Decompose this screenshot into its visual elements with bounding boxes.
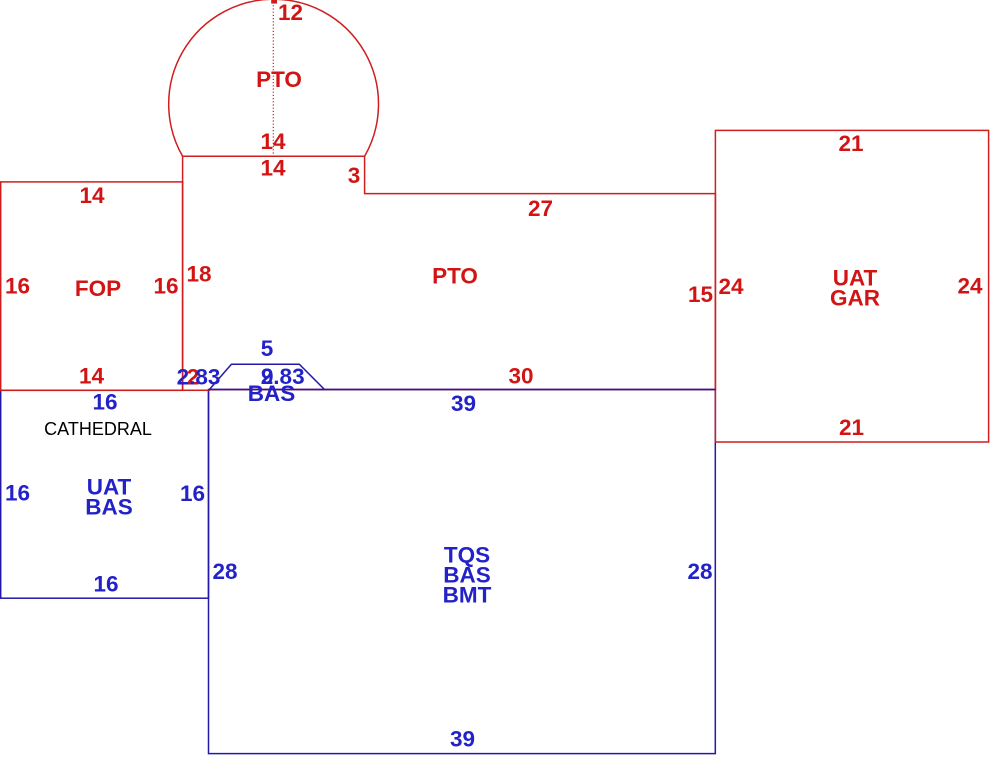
svg-text:BAS: BAS: [248, 381, 296, 406]
svg-text:12: 12: [278, 0, 303, 25]
svg-text:21: 21: [839, 415, 864, 440]
svg-text:PTO: PTO: [256, 67, 302, 92]
svg-text:16: 16: [180, 481, 205, 506]
svg-text:GAR: GAR: [830, 286, 880, 311]
svg-text:24: 24: [957, 274, 983, 299]
svg-text:CATHEDRAL: CATHEDRAL: [44, 419, 152, 439]
svg-text:24: 24: [718, 274, 744, 299]
svg-text:21: 21: [838, 131, 863, 156]
svg-text:16: 16: [5, 481, 30, 506]
svg-text:14: 14: [260, 129, 286, 154]
svg-text:2.83: 2.83: [177, 365, 221, 390]
svg-text:16: 16: [92, 390, 117, 415]
svg-text:16: 16: [5, 274, 30, 299]
svg-text:27: 27: [528, 196, 553, 221]
svg-text:16: 16: [153, 274, 178, 299]
svg-text:14: 14: [260, 156, 286, 181]
svg-text:15: 15: [688, 282, 713, 307]
svg-text:BMT: BMT: [443, 583, 492, 608]
svg-text:18: 18: [186, 262, 211, 287]
svg-text:FOP: FOP: [75, 276, 121, 301]
svg-text:28: 28: [687, 559, 712, 584]
svg-text:28: 28: [212, 559, 237, 584]
svg-text:39: 39: [451, 391, 476, 416]
svg-text:16: 16: [93, 572, 118, 597]
svg-text:30: 30: [508, 364, 533, 389]
svg-text:39: 39: [450, 727, 475, 752]
svg-text:PTO: PTO: [432, 264, 478, 289]
svg-text:3: 3: [348, 163, 361, 188]
svg-text:BAS: BAS: [85, 495, 133, 520]
svg-text:5: 5: [261, 336, 274, 361]
svg-text:14: 14: [79, 364, 105, 389]
svg-text:14: 14: [79, 183, 105, 208]
